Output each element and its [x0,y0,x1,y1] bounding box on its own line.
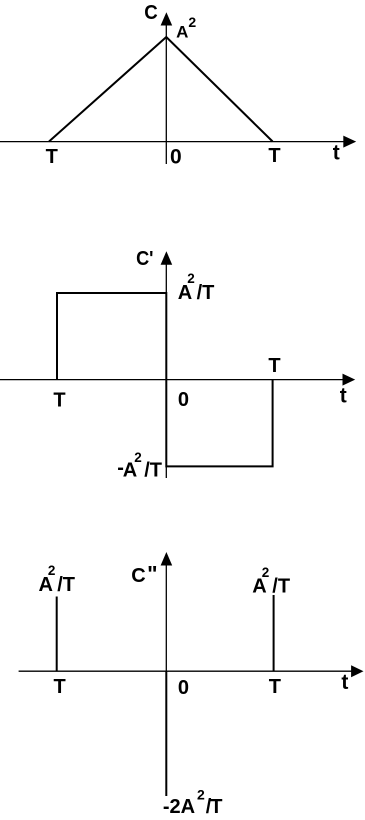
x-axis arrowhead plot1 [343,136,356,148]
y-axis plot2 [165,263,167,478]
curve: step function plot2 [57,293,273,466]
svg-text:A: A [176,22,188,41]
svg-text:2: 2 [262,565,270,580]
svg-text:": " [147,562,157,587]
svg-text:t: t [341,671,348,694]
svg-text:T: T [54,676,66,698]
svg-text:T: T [268,355,280,377]
svg-text:2: 2 [48,563,56,578]
svg-text:t: t [333,141,340,164]
x-axis plot2 [0,379,343,381]
curve: triangle pulse plot1 [49,37,273,142]
svg-text:/T: /T [197,282,215,304]
svg-text:T: T [269,676,281,698]
curve: impulse at +T (up) plot3 [273,595,275,671]
svg-text:0: 0 [178,389,189,411]
y-axis arrowhead plot3 [161,552,173,566]
svg-text:t: t [340,384,347,407]
svg-text:T: T [268,145,280,167]
curve: impulse at -T (up) plot3 [56,597,58,672]
svg-text:C: C [131,565,145,587]
x-axis plot1 [0,141,344,143]
svg-text:/T: /T [144,460,162,482]
svg-text:2: 2 [187,271,195,286]
svg-text:-2A: -2A [163,796,195,818]
svg-text:C': C' [136,248,153,270]
y-axis plot1 [165,24,167,164]
svg-text:/T: /T [272,576,290,598]
svg-text:T: T [46,146,58,168]
y-axis arrowhead plot2 [161,251,173,265]
svg-text:T: T [53,389,65,411]
svg-text:2: 2 [134,450,142,465]
x-axis plot3 [19,670,352,672]
svg-text:0: 0 [170,145,182,168]
svg-text:2: 2 [188,14,196,30]
y-axis plot3 [165,564,167,671]
svg-text:2: 2 [197,787,205,803]
y-axis arrowhead plot1 [161,12,173,25]
x-axis arrowhead plot2 [343,374,356,386]
svg-text:0: 0 [178,677,189,699]
x-axis arrowhead plot3 [351,665,363,677]
svg-text:T: T [210,796,222,818]
svg-text:C: C [144,2,158,24]
curve: impulse at 0 (down) plot3 [165,671,167,796]
svg-text:/T: /T [57,574,75,596]
